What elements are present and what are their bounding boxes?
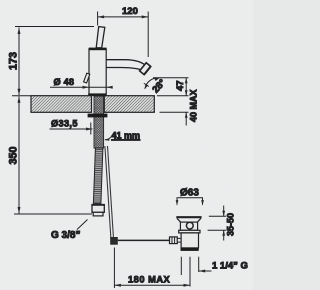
flexible hose (93, 148, 103, 203)
extension line: counter top right (y=95.7) (157, 95, 189, 97)
svg-text:Ø63: Ø63 (180, 188, 199, 199)
dimension 350 line (18, 96, 20, 213)
paper background (0, 0, 253, 290)
leader 1 1/4 G (199, 270, 212, 272)
svg-text:40 MAX: 40 MAX (189, 89, 199, 122)
dimension 47 line (185, 78, 187, 96)
countertop left slab (31, 96, 92, 113)
svg-text:41 mm: 41 mm (112, 131, 141, 141)
extension line: counter top left (y=95.7) (12, 95, 31, 97)
extension line: counter bottom right (y=112.3) (160, 111, 189, 113)
svg-text:350: 350 (8, 146, 20, 164)
dimension D63 bracket (177, 198, 203, 205)
extension line: top of mixer (y=26.5) (15, 26, 94, 28)
svg-text:35-50: 35-50 (226, 213, 236, 236)
dimension 35-50 line (223, 206, 225, 217)
horizontal drain rod (118, 239, 170, 241)
drain flare top (176, 216, 201, 218)
svg-text:173: 173 (8, 52, 20, 70)
dimension 173 arrows (18, 28, 21, 35)
mixer lever handle (96, 27, 105, 48)
extension line hole edge (90, 123, 92, 135)
rod clamp (110, 237, 118, 245)
pop-up knob on body (84, 73, 90, 83)
extension lines below drain (180, 257, 182, 275)
mounting backnut (dark) (88, 114, 108, 118)
threaded shank (94, 96, 104, 148)
mixer base flange (dark) (88, 93, 106, 96)
svg-text:180 MAX: 180 MAX (128, 275, 171, 285)
dimension D33.5 line (50, 128, 93, 130)
pop-up rod (105, 146, 111, 239)
spout aerator tip (140, 63, 151, 75)
dimension 120 arrows (98, 15, 105, 18)
dimension 350 arrows (18, 96, 21, 103)
leader G 3/8 (77, 220, 88, 230)
svg-text:47: 47 (175, 80, 186, 91)
drain overflow hole (186, 222, 193, 229)
dimension D48 line (50, 86, 112, 88)
dimension 173 line (18, 28, 20, 96)
mixer body (89, 49, 106, 96)
svg-text:Ø 48: Ø 48 (54, 77, 75, 87)
extension line: spout outlet level (y=77.8) (153, 77, 189, 79)
extension line: mixer axis (x=97.6) (97, 12, 99, 26)
drain rod ball fitting (170, 237, 178, 244)
extension line: rod end (x=114.4) (113, 248, 115, 289)
hose nut G3/8 (92, 205, 104, 213)
svg-text:G 3/8”: G 3/8” (51, 230, 80, 241)
mixer cartridge cap (dark) (89, 48, 107, 51)
drain bottom lip (dark) (181, 248, 199, 251)
extension line: hose end (y=214) (14, 213, 92, 215)
dimension 180MAX line (114, 284, 190, 286)
angle 28 arc (145, 78, 159, 89)
countertop right slab (104, 96, 154, 113)
extension line: flare top right (y=216.2) (209, 215, 226, 217)
drain upper body (180, 222, 197, 230)
extension line: spout end (x=148.2) (147, 12, 149, 58)
dimension 40MAX line (arrows outside) (185, 112, 187, 125)
extension line: flange bottom right (y=230.2) (208, 229, 226, 231)
svg-text:120: 120 (122, 6, 138, 17)
dimension 120 line (98, 16, 149, 18)
svg-text:Ø33,5: Ø33,5 (51, 118, 78, 128)
svg-text:1 1/4” G: 1 1/4” G (212, 261, 248, 272)
drain lower body (181, 233, 198, 248)
spout (106, 60, 144, 65)
drain flange (179, 230, 200, 233)
